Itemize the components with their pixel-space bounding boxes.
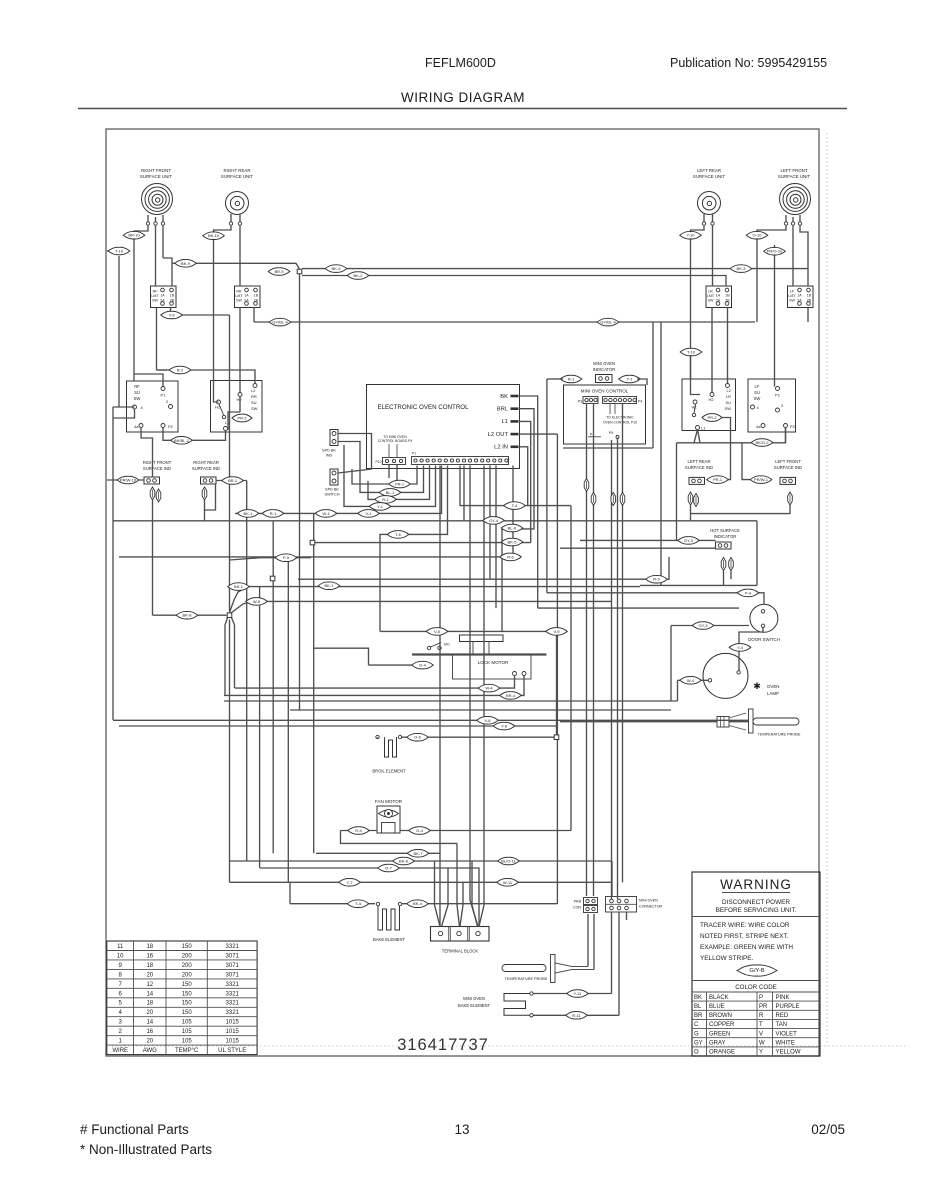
wire label oval Y-1 [369,503,391,511]
wire label oval BK-10 [203,232,225,240]
wire T-4 elbow [289,882,291,903]
svg-text:LOCK MOTOR: LOCK MOTOR [478,660,509,665]
svg-text:PURPLE: PURPLE [776,1004,800,1010]
left rear surface indicator [689,477,705,484]
LR limit switch [706,286,732,308]
svg-text:3321: 3321 [226,1001,240,1007]
svg-text:SW: SW [725,406,732,411]
wire mini conn a [611,912,613,994]
wire Y-1 link [637,379,647,385]
svg-text:R-1: R-1 [270,511,277,516]
left rear surface unit terminals [702,214,714,225]
svg-text:16: 16 [146,953,153,959]
wire RR ind feed [239,397,241,413]
svg-text:20: 20 [146,1039,153,1045]
wire mini conn c [626,912,628,920]
svg-text:BK-7: BK-7 [414,851,424,856]
svg-text:R-6: R-6 [507,554,514,559]
RF limit switch [151,286,177,308]
svg-text:BL-1: BL-1 [386,490,395,495]
wire RR ind down [204,510,206,521]
wire PR/O-10 run [774,245,776,387]
wire LR L1 fan a [694,430,698,443]
wire fan loop [341,831,458,844]
mini oven control U2 [564,385,646,444]
svg-text:UL STYLE: UL STYLE [218,1048,246,1054]
svg-text:1015: 1015 [226,1020,240,1026]
svg-text:SURFACE IND: SURFACE IND [143,466,171,471]
svg-text:4a: 4a [134,424,139,429]
wire label oval BK-2 [347,272,369,280]
wire LR ind bulbs down [690,505,692,514]
wire mini bus d [617,439,619,900]
svg-text:R-2: R-2 [177,368,184,373]
svg-text:L2: L2 [727,388,732,393]
wire mini loop left [652,322,654,448]
svg-text:SW: SW [236,299,242,303]
svg-text:BK: BK [694,995,702,1001]
wire label oval Y-7 [339,879,361,887]
wire BK-3 long run [302,268,808,270]
svg-text:MINI OVEN: MINI OVEN [463,996,485,1001]
svg-text:200: 200 [182,963,193,969]
wire hot loop right [756,521,758,586]
wire T-4 turn [460,466,571,506]
LF surface unit switch [748,379,796,432]
svg-text:3071: 3071 [226,972,240,978]
diagram border frame [106,129,819,1056]
svg-text:BR-9: BR-9 [274,269,284,274]
svg-text:COPPER: COPPER [709,1022,735,1028]
bake element [373,902,406,942]
wire mini loop right [660,322,662,585]
wire GY-3 door [671,625,749,627]
wire splice right drop [232,618,235,689]
svg-text:105: 105 [182,1020,193,1026]
wire R-1 turn [368,466,430,500]
LF indicator bulb [788,492,793,505]
svg-text:P3: P3 [578,400,582,404]
wire 4 to ind [113,409,135,418]
svg-text:16: 16 [146,1029,153,1035]
wire BK-7 run [316,853,440,926]
svg-text:2A: 2A [797,298,802,302]
svg-text:20: 20 [146,972,153,978]
wire RR unit right lead [239,225,241,286]
svg-text:T: T [759,1022,763,1028]
svg-text:BR-1: BR-1 [228,478,238,483]
wire BR-1 stub [216,480,247,482]
svg-text:P: P [759,995,763,1001]
svg-text:# Functional Parts: # Functional Parts [80,1122,189,1137]
right front surface unit terminals [146,215,164,225]
svg-text:SW: SW [708,299,714,303]
wire BK-8 run [153,614,227,616]
wire GY-3 hot feed [580,539,716,541]
svg-text:SW: SW [152,299,158,303]
svg-text:FEFLM600D: FEFLM600D [425,56,496,70]
svg-text:150: 150 [182,982,193,988]
svg-text:RIGHT FRONT: RIGHT FRONT [141,168,171,173]
wire R-4 fan [341,830,378,832]
svg-text:W-5: W-5 [253,599,261,604]
wire label oval W-4 [680,677,702,685]
svg-text:G: G [694,1031,699,1037]
wire hot bulbs down a [723,571,725,586]
wire label oval BK/BL-2 [171,437,193,445]
wire 648 seg [563,447,653,449]
svg-text:DOOR SWITCH: DOOR SWITCH [748,637,780,642]
wire label oval BL-1 [379,489,401,497]
svg-text:316417737: 316417737 [397,1036,489,1054]
LR surface unit switch [682,379,736,431]
wire splice up fan a [230,587,641,613]
svg-text:ORANGE: ORANGE [709,1050,735,1056]
svg-text:GY: GY [694,1041,703,1047]
wire mini conn b [618,912,620,1015]
svg-text:Y-11: Y-11 [574,991,583,996]
RR limit switch [235,286,261,308]
svg-text:P1: P1 [161,393,167,398]
svg-text:R-11: R-11 [572,1013,581,1018]
svg-text:V-5: V-5 [434,629,441,634]
svg-text:PR/W-1: PR/W-1 [754,477,769,482]
svg-text:BK-2: BK-2 [354,273,364,278]
wire BK-9 run [172,263,300,269]
svg-text:LEFT FRONT: LEFT FRONT [775,459,801,464]
svg-text:O: O [694,1050,699,1056]
svg-text:BR: BR [694,1013,703,1019]
wire label oval R-11 [566,1012,588,1020]
svg-text:MINI OVEN: MINI OVEN [639,899,658,903]
svg-text:SW: SW [754,396,761,401]
wire probe up b [593,914,595,970]
svg-text:GREEN: GREEN [709,1031,730,1037]
wire label oval BR-9 [268,268,290,276]
wire label oval P-4 [737,589,759,597]
svg-text:R-1: R-1 [382,497,389,502]
svg-text:Y-8: Y-8 [501,724,508,729]
svg-text:BK-5: BK-5 [508,540,518,545]
wire W-4 lamp [678,679,709,681]
svg-text:BAKE ELEMENT: BAKE ELEMENT [373,937,406,942]
wire label oval W-5 [246,598,268,606]
wire BK/O-2 run [677,428,786,443]
wire lock feed top [313,648,369,665]
wire label oval R-1 [560,375,582,383]
wire T-10 stub [107,250,119,252]
wire label oval R-2 [169,366,191,374]
svg-text:INDICATOR: INDICATOR [714,534,737,539]
svg-text:SU: SU [725,400,731,405]
svg-text:105: 105 [182,1039,193,1045]
wire LR 2B drop [727,308,729,384]
wire broil left drop [377,737,379,739]
electronic oven control U1 [367,385,520,469]
RR indicator bulb [202,487,207,500]
wire R-6 turn [512,466,514,557]
svg-text:1A: 1A [244,293,249,297]
mini oven indicator [596,375,613,383]
wire label oval GY-3 [692,622,714,630]
splice top-left [297,269,302,274]
wire label oval O-7 [378,864,400,872]
svg-text:2B: 2B [725,298,730,302]
svg-text:GY/BL-9: GY/BL-9 [272,320,288,325]
svg-text:1015: 1015 [226,1039,240,1045]
terminal block [431,927,490,954]
wire label oval R-1 [375,496,397,504]
wire R-11 run [534,1014,620,1016]
svg-text:C: C [694,1022,699,1028]
svg-text:BK-3: BK-3 [332,266,342,271]
svg-text:3321: 3321 [226,1010,240,1016]
svg-text:G/Y-B: G/Y-B [749,968,764,974]
right front surface indicator [144,477,160,484]
wire label oval O-10 [746,231,768,239]
wire LF 2B drop [807,308,809,323]
svg-text:PRB: PRB [574,900,582,904]
svg-text:10: 10 [117,953,124,959]
wire label oval PR-1 [389,480,411,488]
svg-text:BK: BK [500,394,508,400]
wire BK-10 run [214,240,219,402]
wire mini bus c [611,440,613,899]
svg-text:20: 20 [146,1010,153,1016]
svg-text:P-5: P-5 [283,555,290,560]
wire label oval GY-4 [483,517,505,525]
wire mini ind drop [546,379,548,593]
wire T-10 drop [118,256,120,407]
svg-text:SURFACE UNIT: SURFACE UNIT [140,174,173,179]
wire 464 drop [463,466,465,521]
wire O-4 fan [400,830,571,832]
svg-text:Y-4: Y-4 [737,645,744,650]
svg-text:INDICATOR: INDICATOR [593,367,616,372]
wire RF 2A drop [156,308,158,371]
svg-text:LMT: LMT [707,294,715,298]
svg-text:P2: P2 [790,424,796,429]
svg-text:CON: CON [573,906,581,910]
svg-text:P1: P1 [775,393,781,398]
wire RR ind link [205,484,216,510]
wire label oval BK-1 [228,583,250,591]
wire 496 drop [495,466,497,609]
wire P10 stub b [396,465,398,484]
wire label oval O-4 [412,661,434,669]
wire label oval BK/O-2 [751,439,773,447]
wire bake riser [556,434,558,904]
svg-text:LMT: LMT [788,294,796,298]
svg-text:✱: ✱ [753,681,761,691]
wire mini bus a [586,403,588,896]
wire Y-1 turn [344,445,436,506]
wire PR/W-1 link [742,443,750,480]
wire gauge table [107,941,257,1055]
svg-text:BRL: BRL [497,407,509,413]
wire W-4 lock [235,676,515,689]
svg-text:TRACER WIRE: WIRE COLOR: TRACER WIRE: WIRE COLOR [700,922,790,929]
splice mid-left [227,613,232,618]
wire label oval PR/W-1 [750,476,772,484]
svg-text:WHITE: WHITE [776,1041,795,1047]
wire label oval V-8 [477,717,499,725]
svg-text:COLOR CODE: COLOR CODE [735,984,777,991]
svg-text:SU: SU [251,400,257,405]
svg-text:P-4: P-4 [745,590,752,595]
wire P1 stub [134,374,164,387]
wire funnel e [472,861,478,927]
svg-text:BEFORE SERVICING UNIT.: BEFORE SERVICING UNIT. [716,907,797,914]
svg-text:RIGHT FRONT: RIGHT FRONT [143,460,172,465]
wire spdbk link [338,434,372,474]
right rear surface indicator [201,477,217,484]
svg-text:BAKE ELEMENT: BAKE ELEMENT [458,1003,491,1008]
wire to RF 1B [163,258,172,286]
svg-text:14: 14 [146,1020,153,1026]
svg-text:BK/BL-2: BK/BL-2 [174,438,190,443]
wire label oval W-4 [478,684,500,692]
right rear surface unit terminals [229,214,241,225]
wire ind bulb bus [691,505,791,514]
wire 490 drop [489,466,491,580]
wire label oval R-4 [348,827,370,835]
svg-text:P9: P9 [609,431,613,435]
svg-text:LR: LR [708,290,713,294]
svg-text:BK/O-2: BK/O-2 [755,440,769,445]
color code table [692,981,820,1057]
wire label oval Y-10 [680,231,702,239]
svg-text:SPD BK: SPD BK [322,449,336,453]
svg-text:12: 12 [146,982,153,988]
LR indicator bulbs [688,492,698,507]
svg-text:TEMP°C: TEMP°C [175,1048,199,1054]
svg-text:BL-6: BL-6 [508,526,517,531]
wire label oval BK-5 [501,538,523,546]
svg-text:RF: RF [134,384,140,389]
wire label oval PR/W-10 [117,476,139,484]
svg-text:H2: H2 [709,397,715,402]
wire bundle c [272,521,274,854]
svg-text:SURFACE IND: SURFACE IND [192,466,220,471]
svg-text:WIRING DIAGRAM: WIRING DIAGRAM [401,90,525,105]
svg-text:LMT: LMT [235,294,243,298]
wire O-10 run [756,240,758,322]
oven temperature probe [560,709,801,737]
svg-text:BLACK: BLACK [709,995,729,1001]
svg-text:Y-9: Y-9 [169,313,176,318]
wire label oval Y-4 [729,644,751,652]
wire Y-8 run [119,725,558,727]
svg-text:1A: 1A [797,293,802,297]
svg-text:200: 200 [182,972,193,978]
svg-text:PR-1: PR-1 [395,482,405,487]
svg-text:LEFT REAR: LEFT REAR [697,168,721,173]
wire Y-11 run [534,993,612,995]
svg-text:BR-10: BR-10 [128,233,140,238]
svg-text:LEFT REAR: LEFT REAR [688,459,711,464]
wire ind bus drop [690,514,692,521]
svg-text:105: 105 [182,1029,193,1035]
wire L1 route [520,421,531,542]
svg-text:FAN MOTOR: FAN MOTOR [375,799,403,804]
svg-text:Y-1: Y-1 [627,377,634,382]
svg-text:GY/BL-9: GY/BL-9 [600,320,616,325]
wire bundle d [287,558,289,883]
wire harness 470 [470,466,478,927]
wire 4a drop [141,428,153,478]
wire long mid bus [113,520,757,522]
wire label oval T-6 [387,531,409,539]
svg-text:SWITCH: SWITCH [325,493,340,497]
wire label oval R-6 [500,553,522,561]
hot surface indicator [716,542,732,549]
svg-text:R-1: R-1 [568,377,575,382]
svg-text:P10: P10 [375,460,381,464]
wire P-5 run [230,558,312,560]
svg-text:18: 18 [146,1001,153,1007]
splice 542 [310,540,315,545]
svg-text:WARNING: WARNING [720,877,792,892]
svg-text:LR: LR [726,394,731,399]
splice broil [554,735,559,740]
svg-text:SU: SU [134,390,140,395]
wire label oval R-3 [646,575,668,583]
wire BL-1 turn [360,466,424,493]
svg-text:CONNECTOR: CONNECTOR [639,905,662,909]
wire harness 484 [483,543,485,883]
svg-text:L1: L1 [502,419,508,425]
wire W-4 drop [677,680,679,701]
warning box [692,872,820,1056]
wire label oval Y-9 [161,311,183,319]
right rear surface unit coil [226,192,249,215]
lock motor [412,635,547,679]
left rear surface unit coil [698,192,721,215]
wire label oval W-11 [497,879,519,887]
svg-text:GY-3: GY-3 [684,538,694,543]
svg-text:V-8: V-8 [484,718,491,723]
svg-text:MINI OVEN: MINI OVEN [593,361,615,366]
svg-text:T-10: T-10 [687,350,696,355]
wire label oval BK-4 [407,900,429,908]
svg-text:LF: LF [755,384,760,389]
wire label oval W-1 [315,510,337,518]
wire V-5 run [380,630,453,632]
svg-text:150: 150 [182,1010,193,1016]
wire P-4 run [547,593,764,605]
svg-text:4a: 4a [756,424,761,429]
wire label oval PR-1 [707,476,729,484]
svg-text:1B: 1B [725,293,730,297]
svg-text:V-1: V-1 [365,511,372,516]
svg-text:BK-6: BK-6 [399,859,409,864]
RR surface unit switch [211,381,263,433]
svg-text:V: V [759,1031,763,1037]
mini oven bake element [504,992,533,1017]
svg-text:SW: SW [134,396,141,401]
wire BRL route [503,409,534,529]
svg-text:3071: 3071 [226,963,240,969]
left front surface unit coil [780,184,811,215]
svg-text:PR/W-10: PR/W-10 [120,478,137,483]
wire mini bus e [622,404,624,882]
svg-text:Y-7: Y-7 [347,880,354,885]
svg-text:P1: P1 [412,452,416,456]
svg-text:150: 150 [182,944,193,950]
wire label oval PR-2 (LR) [702,414,722,422]
fan motor [375,799,403,833]
